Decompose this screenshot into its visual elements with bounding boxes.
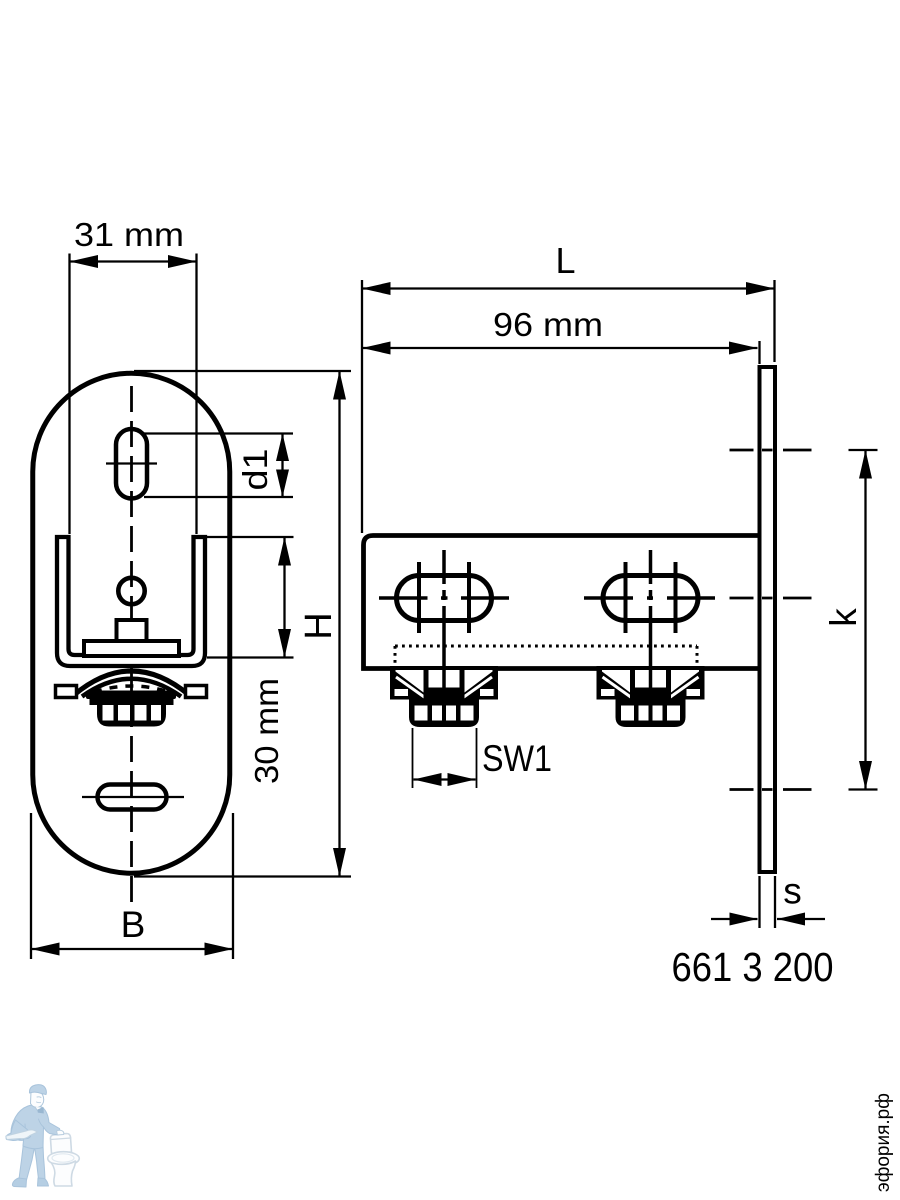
bolt+washer+nut left (side view) — [390, 666, 498, 727]
dim 30mm extension lines — [207, 536, 294, 538]
vertical centerline (dashed) — [130, 386, 133, 904]
slot arc-center ticks — [417, 562, 421, 633]
dim L extension lines — [361, 280, 363, 533]
dim d1 extension lines — [144, 432, 293, 434]
plumber left leg — [19, 1143, 35, 1180]
svg-text:661 3 200: 661 3 200 — [672, 944, 834, 990]
svg-text:SW1: SW1 — [482, 738, 552, 779]
dim SW1 extension lines — [412, 728, 414, 788]
dim s line — [711, 918, 758, 920]
washer right tab — [186, 686, 207, 698]
dim 31mm line — [70, 260, 197, 262]
washer serrations — [94, 686, 169, 692]
svg-text:H: H — [298, 612, 340, 639]
bolt head neck (front) — [117, 620, 147, 640]
dim 30mm line — [283, 537, 285, 658]
hidden edge dotted line — [395, 645, 697, 648]
svg-text:s: s — [783, 871, 802, 912]
top slot horizontal tick — [106, 462, 157, 464]
flat washer (front, solid) — [86, 691, 176, 700]
slot horizontal centerline right — [584, 596, 715, 600]
dim 96mm line — [758, 341, 760, 364]
dim k line — [864, 450, 866, 790]
left arm — [6, 1120, 31, 1141]
wall plate (vertical) — [760, 367, 776, 872]
plumber right leg — [35, 1145, 46, 1179]
shoes — [12, 1178, 26, 1187]
spring washer arc (front) outer — [74, 671, 189, 695]
svg-text:96 mm: 96 mm — [493, 306, 603, 343]
bottom slot (horizontal obround) — [98, 785, 167, 810]
svg-text:L: L — [555, 240, 575, 281]
slot horizontal centerline left — [379, 596, 509, 600]
nut body (front) — [97, 705, 166, 727]
svg-text:31 mm: 31 mm — [74, 216, 184, 253]
cap — [29, 1085, 46, 1095]
toilet bowl rim — [48, 1152, 80, 1166]
jacket arm crease lines — [24, 1119, 44, 1140]
dim s extension lines — [758, 876, 760, 928]
svg-text:30 mm: 30 mm — [248, 678, 285, 784]
wrench — [6, 1130, 38, 1140]
toilet tank — [50, 1134, 71, 1154]
bottom slot horizontal tick — [82, 796, 184, 798]
dim 31mm extension lines — [68, 254, 70, 535]
dim B line — [31, 948, 233, 950]
toilet base — [52, 1161, 76, 1186]
svg-text:d1: d1 — [237, 449, 275, 491]
nut flange (front) — [90, 699, 174, 705]
svg-text:k: k — [823, 608, 864, 627]
top slot (vertical obround) — [116, 429, 147, 499]
bolt+washer+nut right (side view) — [597, 666, 705, 727]
bolt axis centerline left — [442, 550, 446, 717]
bolt head plate (front) — [84, 641, 179, 656]
side bracket body — [364, 536, 760, 669]
plumber logo (bottom left, light blue) — [6, 1085, 79, 1187]
U-channel (double wall) — [57, 537, 205, 666]
svg-text:эфория.рф: эфория.рф — [873, 1093, 894, 1192]
dim k extension lines — [849, 449, 878, 451]
bolt assemblies (side view) — [390, 666, 705, 727]
collar + bowtie — [35, 1107, 42, 1112]
dim H line — [338, 371, 340, 877]
left slot (side view obround) — [397, 576, 492, 621]
right slot (side view obround) — [603, 576, 698, 621]
washer left tab — [56, 686, 77, 698]
dim B extension lines — [30, 813, 32, 959]
dim d1 line — [281, 434, 283, 498]
face — [31, 1090, 44, 1107]
svg-text:B: B — [121, 904, 146, 945]
plate centerline marks — [730, 449, 812, 452]
front plate outline (stadium) — [33, 373, 230, 873]
hole circle in channel — [118, 578, 144, 604]
torso / jacket — [11, 1105, 60, 1149]
bolt axis centerline right — [649, 550, 653, 717]
dim H extension lines — [134, 370, 351, 372]
dim SW1 line — [414, 778, 476, 780]
right hand on tank — [57, 1130, 64, 1135]
dim L line — [362, 287, 775, 289]
spring washer arc (front) inner — [82, 679, 181, 697]
